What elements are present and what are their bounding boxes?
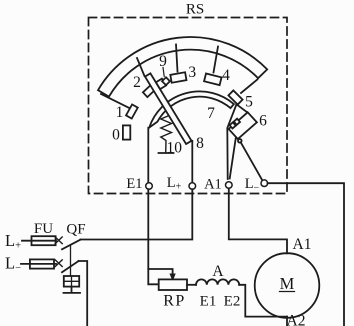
stud 0: [123, 125, 130, 139]
tick from stud 1 to band: [101, 94, 131, 109]
tick from stud 4 to band: [214, 47, 219, 73]
breaker QF blade (top pole): [62, 240, 81, 250]
spring anchor bar: [159, 152, 174, 154]
starter enclosure RS dashed box: [89, 18, 288, 194]
stud 4: [204, 73, 221, 85]
svg-text:4: 4: [222, 67, 230, 84]
svg-text:L−: L−: [245, 176, 260, 194]
wire RP to winding A: [187, 284, 196, 286]
wire A1 terminal to motor top: [229, 188, 287, 253]
terminal E1: [146, 183, 153, 190]
stud 5: [228, 90, 242, 104]
svg-text:M: M: [280, 274, 295, 293]
svg-text:7: 7: [207, 105, 215, 122]
wire stud5 to A1 terminal: [227, 104, 236, 179]
wire winding A to motor bottom: [239, 285, 287, 317]
svg-text:L−: L−: [5, 254, 21, 275]
RP wiper arrow: [170, 274, 175, 280]
QF trip unit box: [64, 276, 79, 287]
QF linkage: [70, 245, 72, 276]
tick from stud 5 to band: [241, 80, 257, 94]
svg-text:A1: A1: [293, 236, 312, 253]
stud 1: [126, 104, 138, 118]
tick from stud 3 to band: [176, 45, 178, 72]
svg-text:E1: E1: [126, 176, 142, 192]
svg-text:6: 6: [259, 113, 267, 130]
wire block 6 to L- terminal: [241, 143, 262, 181]
svg-text:2: 2: [133, 74, 141, 91]
breaker QF fixed contact X (bottom pole): [55, 260, 62, 267]
breaker QF fixed contact X (top pole): [55, 237, 62, 244]
terminal A1: [226, 182, 233, 189]
svg-text:L+: L+: [5, 231, 21, 252]
contact arc 7 (inner band): [149, 91, 234, 127]
fuse FU1: [32, 236, 56, 245]
breaker QF blade (bottom pole): [62, 261, 79, 272]
svg-text:1: 1: [116, 104, 124, 121]
svg-text:RP: RP: [163, 293, 186, 310]
QF anchor stem and bar: [64, 287, 81, 293]
wire L+ terminal down to QF: [81, 189, 193, 239]
rheostat RP: [159, 279, 187, 290]
wire motor bottom A2: [286, 317, 288, 326]
wire block 6 to A1 terminal: [230, 137, 236, 179]
block 6 contact teeth: [230, 122, 236, 128]
wire E1 down to rheostat RP: [148, 189, 158, 284]
terminal L+: [189, 183, 196, 190]
wire lever pivot to L+ terminal: [191, 141, 193, 182]
wire stud5 to contact block 6: [237, 104, 248, 112]
tick from stud 2 to band: [137, 58, 145, 76]
fuse FU2: [30, 259, 54, 268]
svg-text:E2: E2: [224, 294, 241, 310]
wire branch to RP wiper: [148, 269, 172, 275]
resistance arc band (outer sector): [98, 37, 267, 97]
svg-text:A: A: [212, 263, 224, 280]
stud 3: [170, 72, 186, 82]
stud 2: [143, 86, 155, 98]
wire inner arc to E1 terminal: [147, 128, 149, 182]
wire L+ to fuse FU1: [22, 240, 56, 242]
contact 9 diamond: [162, 77, 170, 85]
svg-text:E1: E1: [200, 294, 217, 310]
svg-text:5: 5: [245, 93, 253, 110]
wire L- to fuse FU2: [21, 263, 56, 265]
svg-text:RS: RS: [186, 2, 204, 18]
return spring 10: [161, 111, 172, 153]
svg-text:0: 0: [112, 127, 120, 144]
svg-text:A2: A2: [287, 313, 306, 326]
moving contact 9 (saddle on lever): [156, 79, 166, 89]
wire L- terminal to right rail: [268, 183, 344, 326]
svg-text:8: 8: [196, 135, 204, 152]
svg-text:A1: A1: [204, 177, 222, 193]
contact block 6: [229, 112, 257, 139]
svg-text:L+: L+: [167, 175, 182, 193]
svg-text:3: 3: [188, 64, 196, 81]
svg-text:QF: QF: [66, 222, 85, 238]
winding A (inductor): [196, 279, 239, 284]
motor M: [255, 253, 320, 318]
lever arm 8: [145, 73, 192, 144]
leader line 9: [163, 68, 164, 77]
wire QF bottom pole to lower rail: [79, 261, 88, 326]
terminal L-: [261, 180, 268, 187]
block 6 lower contact dot: [238, 139, 242, 143]
svg-text:FU: FU: [34, 221, 53, 237]
svg-text:10: 10: [167, 140, 183, 157]
